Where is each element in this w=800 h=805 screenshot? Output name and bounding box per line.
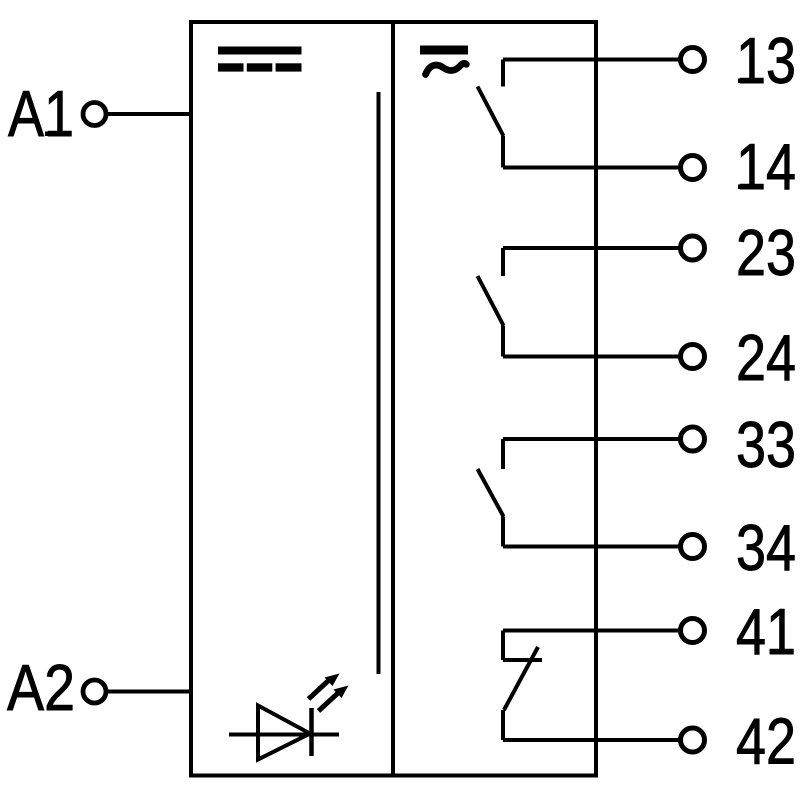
wire A1 to coil box (108, 112, 193, 116)
AC output symbol (bar over tilde) (420, 46, 468, 75)
svg-text:23: 23 (736, 216, 796, 289)
svg-text:A2: A2 (7, 651, 75, 724)
terminal 23 (681, 236, 705, 260)
terminal 13 (681, 48, 705, 72)
terminal 33 (681, 427, 705, 451)
terminal 24 (681, 345, 705, 369)
svg-text:42: 42 (736, 705, 796, 778)
NO contact 13-14 (478, 60, 681, 168)
galvanic isolation barrier line (377, 92, 381, 674)
DC input symbol (solid bar over dashed bar) (218, 47, 302, 72)
NO contact 33-34 (478, 439, 681, 547)
svg-text:34: 34 (736, 511, 796, 584)
svg-text:A1: A1 (8, 77, 74, 150)
NC contact 41-42 (503, 631, 680, 741)
label 13 (736, 24, 796, 97)
svg-text:33: 33 (736, 408, 796, 481)
terminal 42 (681, 728, 705, 752)
wire A2 to coil box (108, 690, 193, 694)
label 41 (736, 595, 796, 668)
svg-text:13: 13 (736, 24, 796, 97)
svg-text:14: 14 (736, 130, 796, 203)
label 14 (736, 130, 796, 203)
terminal 41 (681, 619, 705, 643)
terminal 34 (681, 535, 705, 559)
NO contact 23-24 (478, 248, 681, 357)
terminal A1 (83, 103, 106, 126)
LED indicator diode with arrows (229, 674, 349, 760)
svg-text:24: 24 (736, 321, 796, 394)
svg-text:41: 41 (736, 595, 796, 668)
terminal A2 (83, 680, 106, 703)
internal divider wall between coil and contact sections (391, 22, 395, 775)
relay module outline box (191, 22, 596, 776)
label A1 (8, 77, 74, 150)
terminal 14 (681, 156, 705, 180)
